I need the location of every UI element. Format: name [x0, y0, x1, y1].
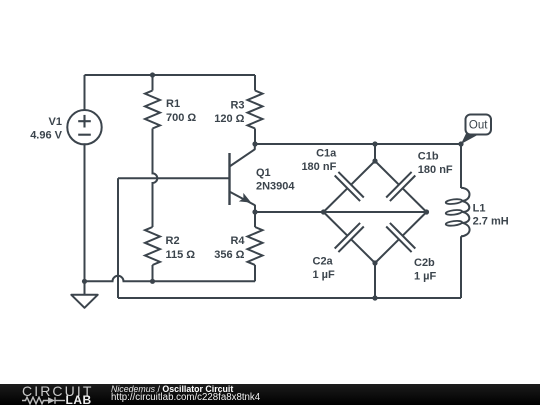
svg-text:700 Ω: 700 Ω — [166, 112, 196, 124]
node top-rail / R1 junction — [150, 72, 155, 77]
svg-text:L1: L1 — [473, 202, 486, 214]
svg-text:120 Ω: 120 Ω — [214, 113, 244, 125]
inductor L1 — [445, 144, 469, 298]
svg-text:356 Ω: 356 Ω — [214, 249, 244, 261]
transistor Q1 — [230, 144, 256, 212]
svg-text:180 nF: 180 nF — [418, 164, 453, 176]
svg-text:V1: V1 — [49, 116, 62, 128]
resistor R3 — [248, 75, 263, 144]
svg-text:C1b: C1b — [418, 150, 439, 162]
resistor R1 — [145, 75, 160, 227]
node diamond top feed — [372, 141, 377, 146]
capacitor C2b — [375, 212, 427, 263]
ground symbol — [71, 281, 97, 308]
node diamond top vertex — [372, 158, 377, 163]
svg-text:R3: R3 — [230, 100, 244, 112]
svg-text:1 µF: 1 µF — [414, 270, 437, 282]
svg-text:R1: R1 — [166, 98, 180, 110]
svg-text:C1a: C1a — [316, 147, 337, 159]
logo diode — [48, 397, 55, 404]
node ground junction — [82, 279, 87, 284]
svg-text:Q1: Q1 — [256, 167, 271, 179]
svg-text:R2: R2 — [166, 235, 180, 247]
node diamond bottom vertex — [372, 260, 377, 265]
svg-text:2.7 mH: 2.7 mH — [473, 216, 509, 228]
svg-text:115 Ω: 115 Ω — [166, 249, 196, 261]
logo resistor — [22, 397, 48, 404]
resistor R4 — [248, 212, 263, 281]
flag Out — [461, 115, 491, 145]
wire left return vertical — [117, 178, 119, 298]
voltage source V1 — [67, 75, 101, 281]
capacitor C1a — [324, 161, 376, 212]
wire diamond top link — [374, 144, 376, 161]
svg-text:R4: R4 — [230, 235, 245, 247]
capacitor C1b — [375, 161, 427, 212]
wire ground rail with hop — [85, 276, 256, 282]
node collector/R3 — [252, 141, 257, 146]
node emitter junction — [252, 209, 257, 214]
wire top rail — [85, 74, 256, 76]
wire emitter rail — [255, 211, 427, 213]
svg-text:C2a: C2a — [313, 255, 334, 267]
svg-text:1 µF: 1 µF — [313, 269, 336, 281]
wire diamond bottom link — [374, 263, 376, 298]
capacitor C2a — [324, 212, 376, 263]
wire Q1 base — [118, 177, 230, 179]
wire collector rail — [255, 143, 461, 145]
node diamond left vertex — [321, 209, 326, 214]
node diamond right vertex — [424, 209, 429, 214]
wire bottom rail — [118, 297, 461, 299]
node bottom rail / diamond — [372, 295, 377, 300]
svg-text:4.96 V: 4.96 V — [30, 129, 62, 141]
svg-text:180 nF: 180 nF — [301, 161, 336, 173]
svg-text:2N3904: 2N3904 — [256, 181, 295, 193]
resistor R2 — [145, 227, 160, 281]
svg-text:C2b: C2b — [414, 257, 435, 269]
node R2 bottom junction — [150, 279, 155, 284]
node output — [458, 141, 463, 146]
svg-text:Out: Out — [469, 120, 488, 132]
